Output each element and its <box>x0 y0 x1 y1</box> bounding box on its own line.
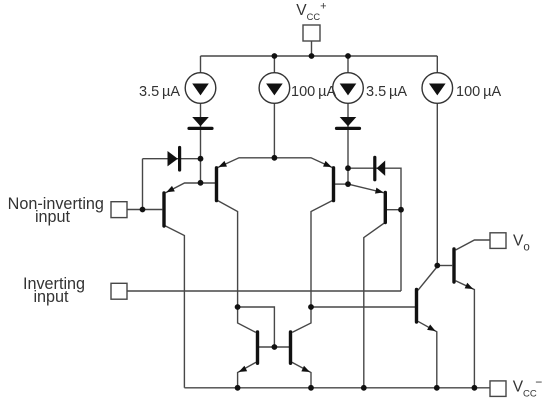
junction dot Q6 collector / Q7 base <box>308 304 314 310</box>
wire Q4 collector down to bottom rail <box>364 222 386 387</box>
junction dot rail-Q7 emitter <box>434 385 440 391</box>
diode D4 (clamp, right) <box>375 157 385 180</box>
transistor Q2 (middle-left PNP) <box>217 161 227 201</box>
junction dot Q1 emitter / Q2 base <box>198 180 204 186</box>
svg-text:input: input <box>35 208 71 226</box>
wire Q5 emitter to bottom rail <box>238 362 257 388</box>
wire Vcc+ terminal to rail <box>311 41 313 56</box>
svg-text:3.5 µA: 3.5 µA <box>366 84 407 100</box>
wire Q4 base to node C <box>387 209 401 211</box>
transistor Q3 (middle-right PNP) <box>323 161 333 201</box>
label Vo <box>513 232 530 253</box>
Vo output terminal square <box>490 233 506 249</box>
current source I3 3.5uA <box>333 73 364 104</box>
label Vcc+ <box>296 1 326 22</box>
wire current source I3 branch (rail to node B) <box>347 56 349 184</box>
junction dot rail-Q5 emitter <box>235 385 241 391</box>
junction dot mirror base tie <box>272 344 278 350</box>
svg-text:3.5 µA: 3.5 µA <box>139 84 180 100</box>
label Non-inverting input <box>8 195 104 226</box>
diode D3 (below I3) <box>337 117 360 128</box>
label 3.5 uA (I3) <box>366 84 407 100</box>
junction dot rail-Q4 collector <box>361 385 367 391</box>
wire emitter bridge Q2-Q3 <box>217 158 332 168</box>
current source I4 100uA <box>422 73 453 104</box>
junction dot Q4 emitter / Q3 base <box>345 181 351 187</box>
junction dot rail-I2 <box>272 53 278 59</box>
wire Q3 base <box>335 183 348 185</box>
transistor Q4 (input PNP, inverting) <box>375 188 385 223</box>
bottom rail wire (Vcc- rail) <box>184 387 490 389</box>
wire Q8 emitter to bottom rail <box>456 281 475 388</box>
junction dot emitter bridge center <box>272 155 278 161</box>
wire current source I1 branch (rail to node A) <box>200 56 202 183</box>
wire Q4 emitter slope <box>348 184 384 193</box>
wire Q7 base from mirror <box>311 306 415 308</box>
wire Q8 collector to Vo terminal <box>456 240 490 250</box>
transistor Q6 (mirror NPN right) <box>291 332 312 375</box>
diode D1 (below I1) <box>189 117 212 128</box>
junction dot rail-I3 <box>345 53 351 59</box>
junction dot node C (Q4 base / D4) <box>398 207 404 213</box>
label Inverting input <box>23 275 85 306</box>
wire Q1 collector down to bottom rail <box>164 225 184 387</box>
diode D2 (clamp, left) <box>168 148 180 171</box>
label 100 uA (I4) <box>456 84 501 100</box>
svg-text:100 µA: 100 µA <box>291 84 336 100</box>
wire D2 anode drop to non-inverting input <box>142 159 144 210</box>
current source I2 100uA <box>259 73 290 104</box>
svg-text:VCC+: VCC+ <box>296 1 326 22</box>
wire Q8 base <box>437 265 452 267</box>
transistor Q7 (gain NPN) <box>417 289 438 333</box>
junction dot Q5 collector / mirror base <box>235 304 241 310</box>
junction dot node A (D2 cathode) <box>198 156 204 162</box>
wire Q3 collector down to Q6 collector <box>292 200 333 332</box>
wire inverting input line <box>127 290 401 292</box>
wire diode D2 horizontal run <box>143 158 201 160</box>
inverting input terminal square <box>111 283 127 299</box>
wire Q1 emitter and Q2 base <box>166 183 215 193</box>
wire Q2 collector down to Q5 collector <box>217 200 256 332</box>
junction dot rail-Q6 emitter <box>308 385 314 391</box>
label Vcc- <box>513 375 543 400</box>
Vcc+ terminal square <box>303 25 320 41</box>
junction dot rail-Vcc <box>309 53 315 59</box>
transistor Q1 (input PNP, non-inverting) <box>164 186 175 226</box>
junction dot node B (D4 cathode) <box>345 165 351 171</box>
wire non-inverting input to Q1 base <box>127 209 162 211</box>
wire Q7 collector slope <box>418 267 437 291</box>
svg-text:input: input <box>33 288 69 306</box>
transistor Q5 (mirror NPN left) <box>237 332 257 375</box>
svg-text:100 µA: 100 µA <box>456 84 501 100</box>
top rail wire (Vcc+ rail) <box>201 55 438 57</box>
wire current mirror base tie <box>259 346 289 348</box>
transistor Q8 (output NPN) <box>454 249 475 292</box>
wire Q6 emitter to bottom rail <box>292 362 311 388</box>
svg-text:Vo: Vo <box>513 232 530 253</box>
current source I1 3.5uA <box>185 73 216 104</box>
label 3.5 uA (I1) <box>139 84 180 100</box>
svg-text:VCC−: VCC− <box>513 375 543 400</box>
label 100 uA (I2) <box>291 84 336 100</box>
non-inverting input terminal square <box>111 202 127 218</box>
Vcc- terminal square <box>490 381 506 397</box>
wire mirror base riser to Q5 collector node <box>238 307 275 347</box>
wire Q7 emitter to bottom rail <box>418 321 437 388</box>
junction dot non-inverting input / D2 <box>140 207 146 213</box>
junction dot Q7 collector / Q8 base <box>434 263 440 269</box>
junction dot rail-Q8 emitter <box>472 385 478 391</box>
wire current source I4 branch (rail to Q7 collector node) <box>436 56 438 266</box>
wire current source I2 branch (rail to emitter bridge) <box>273 56 275 158</box>
wire diode D4 run and drop to inverting line <box>348 168 401 291</box>
